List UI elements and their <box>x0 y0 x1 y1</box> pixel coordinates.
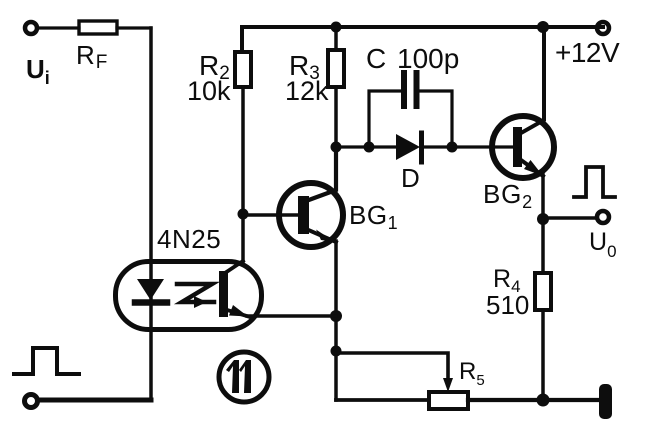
input pulse waveform <box>14 348 79 374</box>
wire lower terminal to LED cathode <box>38 398 151 403</box>
resistor R3 <box>334 27 338 50</box>
BG1 emitter <box>306 229 336 242</box>
svg-text:RF: RF <box>76 40 107 73</box>
node cap right <box>447 142 458 153</box>
svg-text:+12V: +12V <box>555 37 620 68</box>
node emitter-opto <box>330 310 342 322</box>
LED of 4N25 <box>137 279 164 300</box>
node U0 <box>537 213 549 225</box>
node base BG1 <box>238 209 249 220</box>
BG2 collector <box>521 27 544 133</box>
wire node to R4 <box>541 219 545 273</box>
wire input to RF <box>37 26 79 29</box>
input terminal Ui <box>25 22 37 34</box>
resistor RF <box>79 21 117 34</box>
input lower terminal <box>25 395 38 408</box>
svg-text:BG1: BG1 <box>349 200 398 233</box>
svg-text:100p: 100p <box>397 43 459 74</box>
wire BG2 emitter down <box>541 175 545 219</box>
wire R3 bottom to diode row <box>334 87 338 147</box>
resistor R2 <box>235 52 251 87</box>
svg-text:4N25: 4N25 <box>157 224 221 254</box>
node rail-BG2 <box>537 21 549 33</box>
BG1 base wire <box>243 213 298 216</box>
output pulse waveform <box>574 167 615 197</box>
transistor BG1 <box>279 183 343 247</box>
bottom rail left <box>336 398 429 402</box>
svg-text:R5: R5 <box>459 358 485 389</box>
wire opto emitter to BG1 emitter <box>247 314 336 317</box>
svg-text:10k: 10k <box>187 76 231 106</box>
node R3-diode-BG1 collector <box>331 142 342 153</box>
potentiometer R5 <box>429 392 468 409</box>
transistor BG2 <box>492 116 554 178</box>
wire RF to corner <box>117 26 151 29</box>
wire node to diode anode <box>336 145 396 148</box>
phototransistor emitter <box>227 310 250 317</box>
light arrows <box>177 284 214 302</box>
BG2 base bar <box>513 127 522 167</box>
resistor R4 <box>535 273 551 310</box>
BG1 base bar <box>298 196 309 234</box>
wire diode to BG2 base <box>424 145 514 148</box>
terminal +12V <box>597 22 609 34</box>
capacitor C plates <box>401 73 407 106</box>
BG1 collector <box>306 147 336 201</box>
top rail +12V <box>242 27 603 52</box>
node emitter-wiper <box>331 346 342 357</box>
node cap left <box>364 142 375 153</box>
wire vertical down from RF to LED <box>149 28 153 400</box>
terminal U0 <box>597 211 609 223</box>
phototransistor collector <box>225 261 243 273</box>
svg-text:U0: U0 <box>589 228 617 261</box>
svg-text:C: C <box>366 43 386 74</box>
svg-text:BG2: BG2 <box>483 179 533 212</box>
wiper wire to R5 <box>336 353 448 380</box>
capacitor C wires <box>369 91 401 147</box>
diode D <box>396 134 420 160</box>
ground bar <box>599 384 612 419</box>
figure mark II <box>219 352 269 402</box>
bottom rail right <box>468 398 600 402</box>
node rail-R3 <box>331 22 342 33</box>
optocoupler 4N25 body <box>116 262 262 330</box>
phototransistor bar <box>219 271 228 317</box>
svg-text:12k: 12k <box>285 76 329 106</box>
svg-text:510: 510 <box>486 290 529 320</box>
svg-text:Ui: Ui <box>26 54 50 88</box>
wire BG1 emitter down <box>334 241 338 400</box>
wiper arrow <box>443 378 453 392</box>
wire to U0 terminal <box>543 216 597 219</box>
svg-text:D: D <box>401 163 420 193</box>
node bottom R4 <box>537 394 550 407</box>
wire R2 bottom to opto collector <box>241 87 245 262</box>
BG2 emitter <box>521 160 543 176</box>
wire R4 to bottom rail <box>541 310 545 400</box>
